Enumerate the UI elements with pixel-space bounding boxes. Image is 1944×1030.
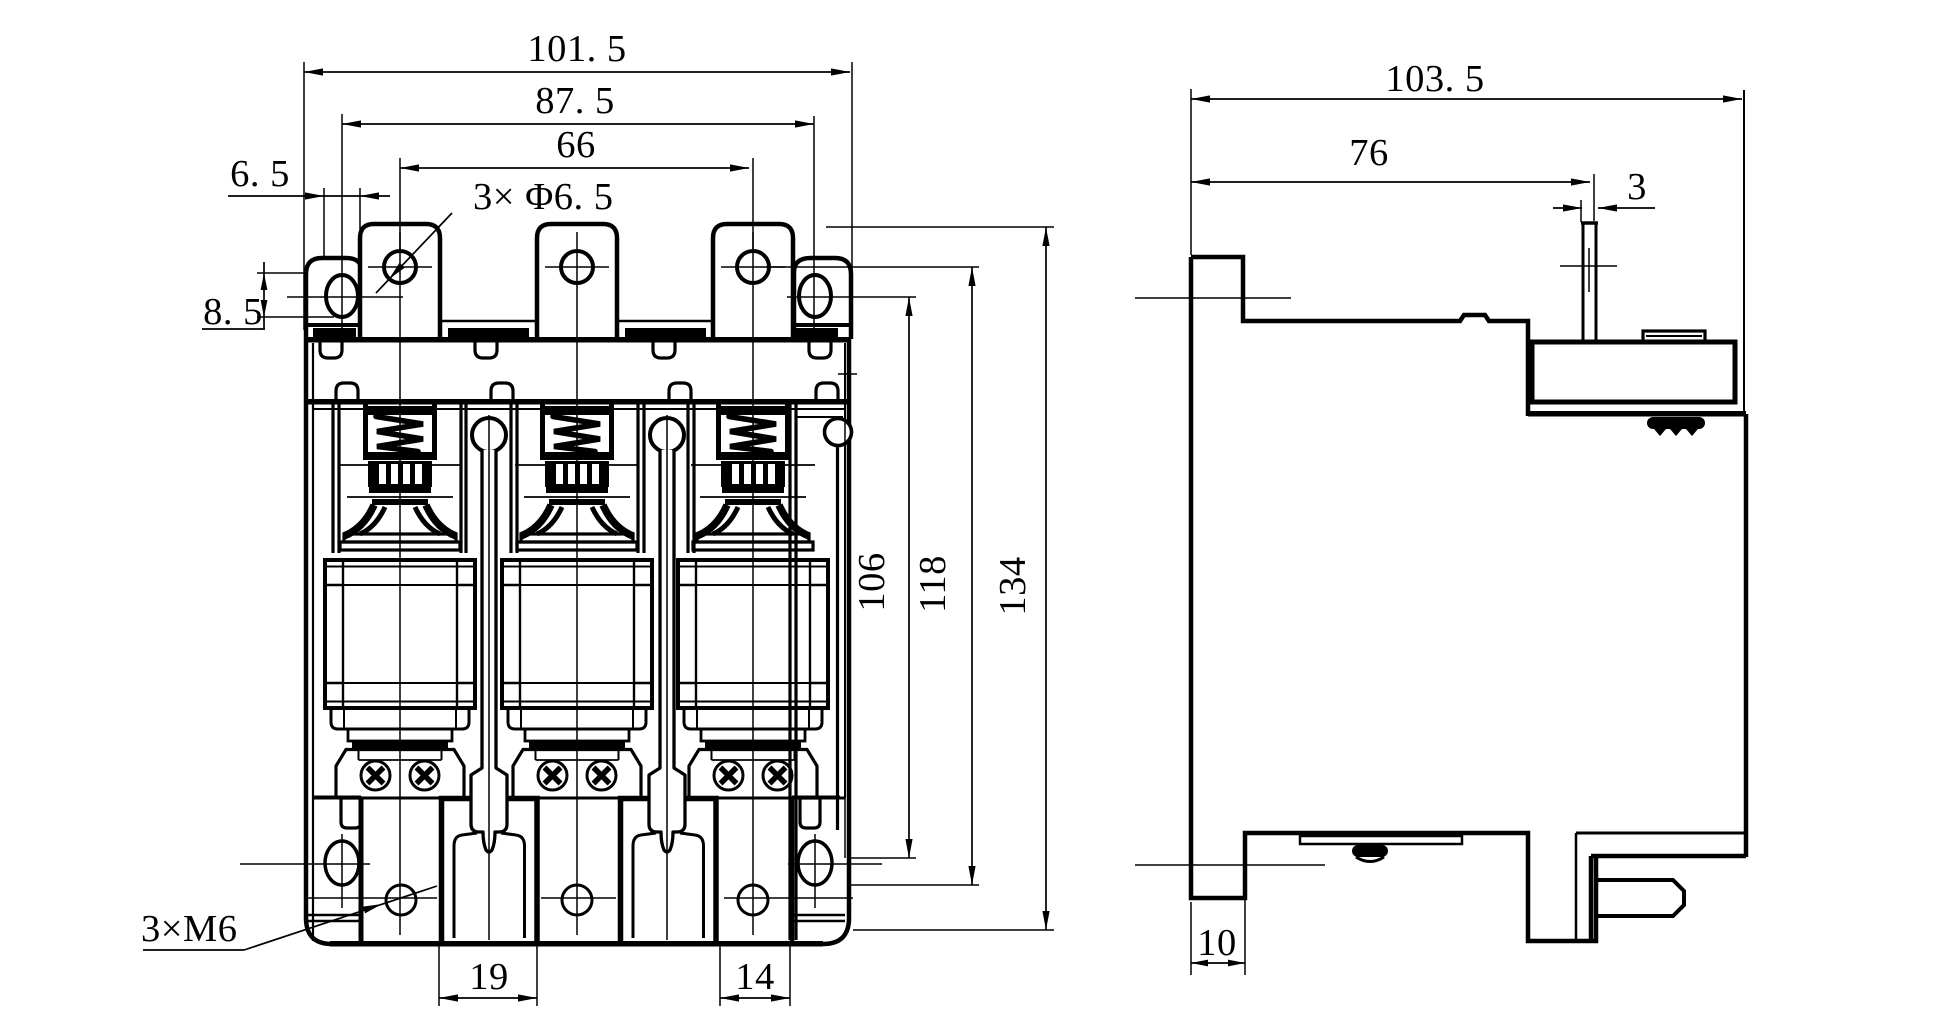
svg-text:76: 76 bbox=[1349, 132, 1389, 174]
svg-text:118: 118 bbox=[912, 555, 954, 613]
svg-text:3×M6: 3×M6 bbox=[141, 908, 237, 950]
svg-text:19: 19 bbox=[469, 956, 509, 998]
svg-text:3: 3 bbox=[1627, 166, 1647, 208]
svg-text:101. 5: 101. 5 bbox=[527, 28, 626, 70]
svg-text:8. 5: 8. 5 bbox=[203, 291, 263, 333]
svg-text:6. 5: 6. 5 bbox=[230, 153, 290, 195]
svg-text:106: 106 bbox=[851, 552, 893, 611]
svg-text:3× Φ6. 5: 3× Φ6. 5 bbox=[473, 176, 613, 218]
svg-text:103. 5: 103. 5 bbox=[1385, 58, 1484, 100]
svg-text:10: 10 bbox=[1197, 922, 1237, 964]
svg-text:87. 5: 87. 5 bbox=[535, 80, 615, 122]
svg-text:134: 134 bbox=[992, 556, 1034, 615]
svg-text:66: 66 bbox=[556, 124, 596, 166]
svg-text:14: 14 bbox=[735, 956, 775, 998]
